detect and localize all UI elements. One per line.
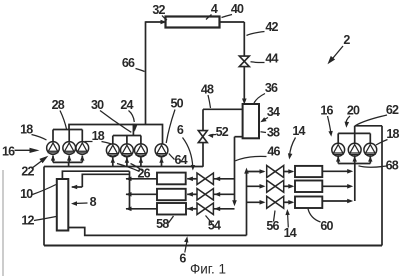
svg-text:64: 64 — [174, 153, 187, 167]
svg-text:32: 32 — [152, 3, 165, 17]
svg-text:38: 38 — [267, 126, 280, 140]
svg-text:42: 42 — [265, 20, 278, 34]
svg-text:52: 52 — [216, 125, 229, 139]
svg-text:16: 16 — [320, 104, 333, 118]
svg-text:6: 6 — [179, 252, 186, 266]
svg-text:56: 56 — [266, 219, 279, 233]
svg-text:2: 2 — [343, 33, 350, 47]
svg-text:30: 30 — [91, 98, 104, 112]
svg-text:58: 58 — [156, 217, 169, 231]
svg-text:Фиг. 1: Фиг. 1 — [190, 262, 226, 276]
svg-text:62: 62 — [386, 103, 399, 117]
svg-text:8: 8 — [90, 195, 97, 209]
svg-text:16: 16 — [2, 144, 15, 158]
svg-text:24: 24 — [120, 98, 133, 112]
svg-text:66: 66 — [122, 56, 135, 70]
svg-text:14: 14 — [292, 124, 305, 138]
svg-text:48: 48 — [201, 83, 214, 97]
svg-text:40: 40 — [231, 2, 244, 16]
svg-text:68: 68 — [386, 159, 399, 173]
svg-text:18: 18 — [20, 122, 33, 136]
svg-text:44: 44 — [265, 52, 278, 66]
svg-text:4: 4 — [211, 2, 218, 16]
svg-text:6: 6 — [177, 123, 184, 137]
svg-text:36: 36 — [265, 81, 278, 95]
svg-text:22: 22 — [21, 165, 34, 179]
svg-text:18: 18 — [92, 129, 105, 143]
svg-text:28: 28 — [52, 98, 65, 112]
svg-text:12: 12 — [21, 214, 34, 228]
svg-text:34: 34 — [267, 105, 280, 119]
svg-text:14: 14 — [284, 226, 297, 240]
svg-text:20: 20 — [347, 104, 360, 118]
svg-text:10: 10 — [20, 187, 33, 201]
svg-text:50: 50 — [171, 97, 184, 111]
svg-text:46: 46 — [267, 145, 280, 159]
svg-text:60: 60 — [320, 219, 333, 233]
svg-text:18: 18 — [386, 127, 399, 141]
